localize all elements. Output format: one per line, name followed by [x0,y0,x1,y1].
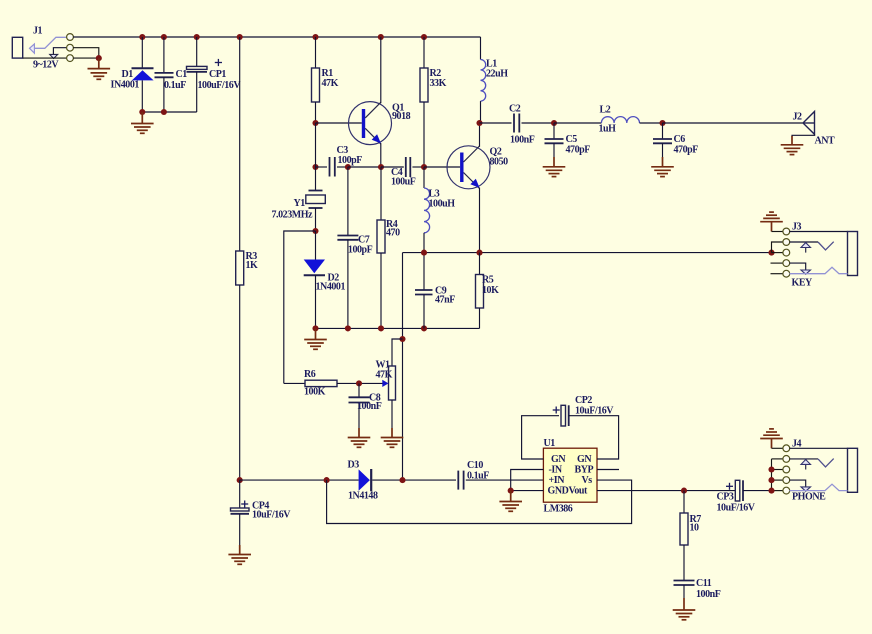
ground at J3 (flipped) [760,212,783,231]
wire R5 bottom lead [479,308,481,328]
J4 tip contact arrow [801,460,811,470]
pin 5 of J4 [783,487,790,494]
wire R2 top lead [423,37,425,68]
pin 2 of J3 [783,239,790,246]
svg-text:U1: U1 [544,438,556,449]
svg-text:C2: C2 [509,104,521,115]
svg-text:GN: GN [551,454,566,465]
ground at CP4 [228,555,251,565]
J3 tip spring [789,241,818,243]
inductor L2 [601,117,639,123]
wire W1 top link [392,339,403,366]
svg-text:1N4148: 1N4148 [348,491,378,502]
wire Y1 bottom lead [315,208,317,231]
wire J4 pin5 stub [772,490,784,492]
svg-text:+IN: +IN [549,475,566,486]
capacitor CP1 [187,37,208,112]
ground at C5 [543,167,566,177]
node L1/Q2/C2 [476,120,482,126]
svg-text:47K: 47K [322,78,339,89]
ground at C11 [673,610,696,620]
svg-text:GN: GN [577,454,592,465]
svg-text:9~12V: 9~12V [33,60,59,71]
diode D1 [132,68,154,80]
node rail C9 [421,325,427,331]
wire R7 top lead [683,491,685,513]
svg-text:C10: C10 [467,460,483,471]
svg-text:470pF: 470pF [674,145,699,156]
capacitor C2 [480,114,555,133]
wire R6 right lead [337,382,359,384]
pin 2 of J1 [67,44,74,51]
node J4 pin5 [768,488,774,494]
capacitor C8 [349,383,370,437]
wire D2 bottom lead [315,275,317,328]
connector J2 antenna [792,112,815,145]
node -IN/GND [508,488,514,494]
node osc row R1col [312,164,318,170]
pin 3 of J4 [783,466,790,473]
J4 jack body bar [848,448,858,492]
connector J1 body [12,37,22,58]
svg-text:C6: C6 [674,134,686,145]
svg-text:100pF: 100pF [338,155,363,166]
node J4 pin4 [768,477,774,483]
pin 2 of J4 [783,456,790,463]
wire Q1 base [316,122,362,124]
W1 wiper arrow [359,380,389,387]
svg-text:CP1: CP1 [209,69,226,80]
capacitor C1 [155,37,174,112]
svg-text:1N4001: 1N4001 [316,282,346,293]
CP1 plus sign [215,59,222,66]
wire +V top rail [73,36,480,38]
svg-text:10uF/16V: 10uF/16V [717,503,756,514]
capacitor C5 [545,123,564,167]
wire J3 pin2 link [772,242,784,253]
wire J4 pin2 stub [772,458,784,460]
node bottom D1 [139,109,145,115]
node rail C7 [345,325,351,331]
transistor Q1 [349,102,392,145]
svg-text:CP3: CP3 [717,492,734,503]
wire J1 sleeve line [23,57,67,59]
resistor R7 [680,513,688,545]
capacitor C7 [337,236,358,329]
wire D1 bottom lead [141,80,143,112]
ground at C8 [348,438,371,448]
node rail R2 [421,34,427,40]
transistor Q2 [447,146,490,189]
wire R5 top lead [479,253,481,275]
wire D1 top lead [141,37,143,68]
svg-text:10uF/16V: 10uF/16V [575,406,614,417]
resistor R6 [305,380,337,386]
svg-text:100uH: 100uH [429,199,456,210]
ground at osc rail [304,328,327,349]
wire R3 top lead [239,37,241,251]
node bottom C1 [161,109,167,115]
wire Y1 column top [315,123,317,191]
node key row at J3 [768,250,774,256]
svg-text:C5: C5 [566,134,578,145]
wire U1 Vout [597,490,735,492]
wire D3 to C10 [372,479,456,481]
svg-text:Vs: Vs [582,475,593,486]
U1 pin labels [548,454,594,497]
svg-text:100pF: 100pF [348,245,373,256]
wire R1 bottom lead [315,102,317,123]
wire R7 bottom lead [683,545,685,581]
node D3 anode / Vs loop [324,477,330,483]
svg-text:KEY: KEY [792,278,814,289]
wire C5 to L2 [554,122,601,124]
svg-text:D3: D3 [348,460,360,471]
resistor R2 [420,68,428,102]
CP4 plus sign [241,501,248,508]
svg-text:L2: L2 [600,105,611,116]
J4 sleeve spring [789,484,847,490]
node J1 ground junction [96,55,102,61]
wire Q2 base [424,166,460,168]
ground at J4 (flipped) [760,429,783,448]
CP2 plus sign [553,407,560,414]
ground at U1 [499,491,522,512]
wire D2 top lead [315,231,317,260]
wire R6 left lead [284,382,305,384]
wire R3 bottom lead [239,285,241,480]
wire R4 bottom lead [380,253,382,328]
crystal Y1 [306,191,326,209]
svg-text:C1: C1 [176,69,188,80]
capacitor C9 [415,253,433,329]
wire R4 top lead [380,167,382,220]
node Vout/R7 [681,488,687,494]
wire U1 -IN pin [511,470,544,491]
node rail R3 [237,34,243,40]
wire D3 row left [240,479,359,481]
wire C7 column [347,167,349,236]
node rail Q1 collector [378,34,384,40]
node R6/C8/W1 [356,380,362,386]
wire U1 GND pin [511,490,544,492]
wire U1 Vs loop [327,480,632,523]
svg-text:-IN: -IN [549,465,563,476]
J1 tip contact (light purple) [30,37,67,53]
pin 1 of J3 [783,228,790,235]
node rail CP1 [194,34,200,40]
node Q1 emitter row [378,164,384,170]
wire Q2 emitter lead [479,188,481,253]
inductor L1 [481,37,486,123]
svg-text:100nF: 100nF [696,589,721,600]
svg-text:GND: GND [548,486,569,497]
J1 switch contact arrow [50,48,67,59]
node key row L3 [421,250,427,256]
pin 3 of J1 [67,55,74,62]
svg-text:1K: 1K [246,260,259,271]
svg-text:C11: C11 [696,578,712,589]
wire J4 pin4 stub [772,479,784,481]
svg-text:BYP: BYP [575,465,594,476]
wire keying vertical [402,253,404,481]
capacitor CP2 [561,405,619,459]
wire J4 pin1 left [772,447,784,449]
resistor R4 [377,220,385,253]
wire filter bottom row [142,111,196,113]
svg-text:IN4001: IN4001 [111,80,140,91]
node rail D2 [312,325,318,331]
capacitor CP3 [735,480,768,501]
node rail R4 [378,325,384,331]
svg-text:33K: 33K [430,78,447,89]
capacitor C10 [458,471,543,490]
svg-text:R6: R6 [304,369,316,380]
wire J4 left column [771,459,773,491]
node J4 pin3 [768,466,774,472]
svg-text:1uH: 1uH [599,124,617,135]
diode D3 [359,469,372,491]
wire Q2 collector lead [479,123,481,147]
wire Q1 collector lead [380,37,382,103]
svg-text:CP2: CP2 [575,395,592,406]
svg-text:10: 10 [690,523,700,534]
capacitor C11 [674,581,695,611]
svg-text:22uH: 22uH [486,69,508,80]
wire U1 GN left pin to CP2 [522,416,559,459]
wire Y1 to R6 branch [284,231,316,383]
svg-text:J1: J1 [33,26,43,37]
svg-text:47nF: 47nF [435,295,455,306]
wire J4 pin3 stub [772,469,784,471]
node W1 top [399,336,405,342]
wire pin2 to ground node [73,48,99,58]
capacitor CP4 [231,480,250,554]
node D3/Vs/key [399,477,405,483]
CP3 plus sign [726,483,733,490]
svg-text:D1: D1 [122,69,134,80]
svg-text:470: 470 [386,227,400,238]
svg-text:100uF: 100uF [391,177,416,188]
capacitor C3 [316,157,348,177]
resistor R3 [236,251,244,285]
svg-text:Vout: Vout [569,486,589,497]
J3 ring contact arrow [789,263,810,274]
node Q1 base [312,120,318,126]
ground at J2 [781,145,804,155]
wire J4 pin1 to body [789,447,847,449]
svg-text:0.1uF: 0.1uF [467,471,489,482]
node C4/L3/Q2 base [421,164,427,170]
node rail R1 [312,34,318,40]
node key row Q2e [476,250,482,256]
capacitor C6 [653,123,672,167]
J3 tip contact arrow [801,243,811,253]
wire R1 top lead [315,37,317,68]
wire pin3 to ground node [73,57,99,59]
J3 sleeve spring [789,267,847,273]
svg-text:10uF/16V: 10uF/16V [252,510,291,521]
ground at C6 [651,167,674,177]
inductor L3 [424,167,430,253]
J4 ring contact arrow [789,480,810,491]
svg-text:7.023MHz: 7.023MHz [272,210,314,221]
ground at W1 [381,438,404,448]
node rail D1 [139,34,145,40]
svg-text:J3: J3 [792,222,802,233]
svg-text:8050: 8050 [490,157,509,168]
node Y1 bottom [312,228,318,234]
svg-text:10K: 10K [482,285,499,296]
node CP4/D3 row [237,477,243,483]
wire J3 pin1 left [772,231,784,233]
wire U1 BYP stub [597,469,619,471]
wire R2 bottom lead [423,102,425,167]
svg-text:9018: 9018 [392,111,411,122]
wire osc ground rail [316,327,480,329]
svg-text:47K: 47K [376,370,393,381]
ground at J1 [88,58,111,79]
wire J3 pin5 stub [771,273,784,275]
pin 4 of J4 [783,477,790,484]
pin 3 of J3 [783,249,790,256]
wire J3 pin1 to body [789,231,847,233]
wire Q1 emitter lead [380,143,382,167]
svg-text:Y1: Y1 [294,198,306,209]
op-amp U1 LM386 box [543,448,597,502]
diode D2 [304,260,325,276]
svg-text:470pF: 470pF [566,145,591,156]
capacitor C4 [381,157,424,177]
node rail C1 [161,34,167,40]
J4 tip spring [789,458,818,460]
node C5 top [551,120,557,126]
svg-text:ANT: ANT [815,136,836,147]
ground at D1 [131,112,154,133]
wire keyed row [403,252,772,254]
wire osc row C7 to Q1e [348,166,381,168]
svg-text:PHONE: PHONE [792,492,826,503]
svg-text:LM386: LM386 [544,504,573,515]
potentiometer W1 [389,366,396,438]
pin 5 of J3 [783,270,790,277]
node C7 top [345,164,351,170]
wire J3 pin3 stub [772,252,784,254]
J3 jack body bar [848,232,858,276]
pin 4 of J3 [783,260,790,267]
pin 1 of J1 [67,34,74,41]
wire J3 pin4 stub [771,262,784,264]
svg-text:100K: 100K [304,387,326,398]
resistor R1 [312,68,320,102]
svg-text:100nF: 100nF [510,135,535,146]
wire L2 to C6 [640,122,663,124]
node C6 top [659,120,665,126]
wire C6 to J2 [663,122,804,124]
svg-text:100uF/16V: 100uF/16V [198,80,242,91]
svg-text:J2: J2 [793,112,803,123]
svg-text:0.1uF: 0.1uF [164,80,186,91]
svg-text:100nF: 100nF [357,401,382,412]
pin 1 of J4 [783,445,790,452]
resistor R5 [476,275,484,309]
